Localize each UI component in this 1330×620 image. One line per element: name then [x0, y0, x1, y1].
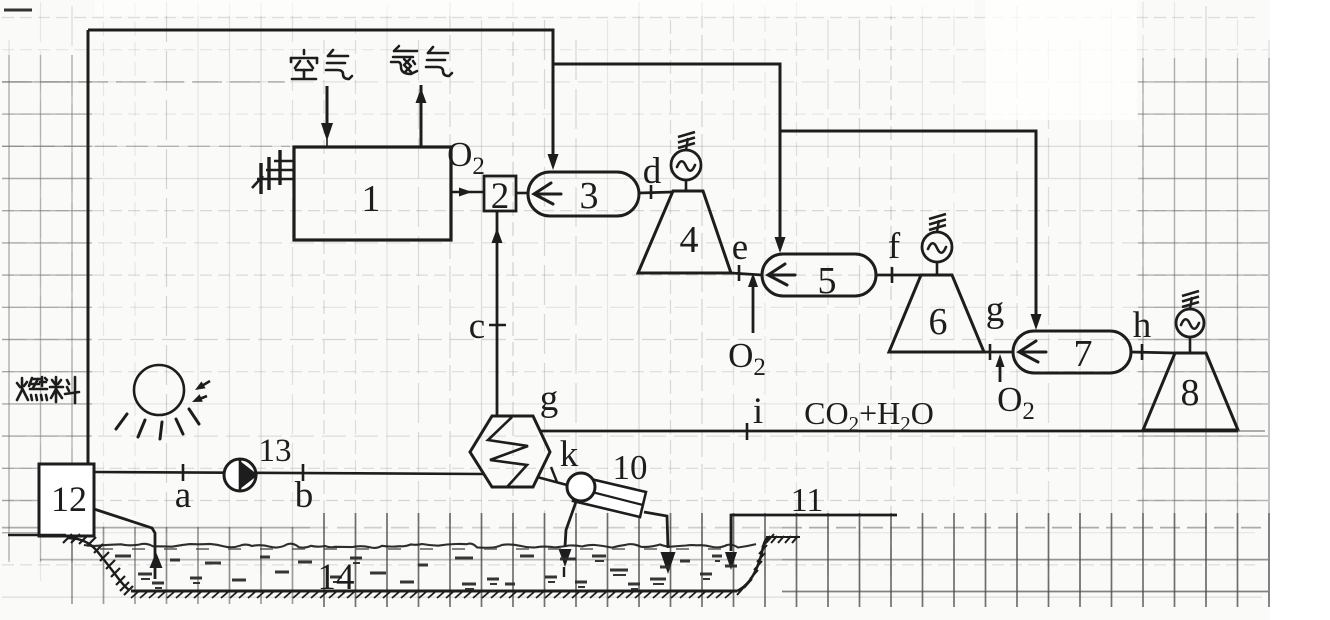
pond 14: right bank with hatching: [737, 537, 768, 591]
pond 14: ground line left of bank: [8, 534, 66, 537]
pump 10 discharge pipe into pond: [644, 512, 668, 548]
svg-text:b: b: [295, 475, 314, 516]
node k and pump 10 (cooling water pump): [537, 477, 567, 485]
svg-text:8: 8: [1181, 372, 1200, 414]
svg-text:g: g: [986, 289, 1005, 330]
svg-text:i: i: [753, 391, 763, 432]
svg-text:g: g: [540, 378, 559, 419]
turbine 8 (trapezoid): [1143, 353, 1238, 430]
svg-text:2: 2: [491, 176, 510, 217]
svg-text:a: a: [175, 475, 191, 516]
svg-text:5: 5: [818, 260, 837, 302]
burner comb symbol on left wall of unit 1: [252, 150, 294, 194]
pipe 11: condensate return into pond: [731, 515, 897, 551]
pump 10 suction pipe: [565, 499, 577, 547]
wire a-b: fuel/water line from tank 12 to heat exchanger: [94, 472, 484, 474]
combustor 7 (capsule): [1013, 331, 1131, 373]
svg-text:6: 6: [929, 301, 948, 343]
node g with O2 injection: [984, 351, 1013, 354]
svg-text:1: 1: [362, 178, 381, 220]
label air (kanji) with arrow into unit 1: [291, 50, 317, 79]
wire: recycle rail to combustor 7: [780, 131, 1036, 321]
svg-text:10: 10: [613, 448, 648, 487]
label nitrogen (kanji) with arrow out of unit 1: [391, 46, 417, 74]
generator on turbine 4: [685, 180, 688, 191]
svg-text:7: 7: [1074, 333, 1093, 375]
svg-text:h: h: [1133, 305, 1152, 346]
node c: [489, 324, 506, 327]
node f: [876, 274, 921, 277]
svg-text:e: e: [732, 227, 748, 268]
svg-text:12: 12: [51, 479, 87, 519]
svg-text:c: c: [469, 306, 485, 347]
svg-text:CO2+H2O: CO2+H2O: [804, 395, 934, 436]
unit 1: air separation unit box: [294, 147, 451, 240]
node d: [639, 192, 673, 193]
wire: fuel line left vertical drop: [87, 30, 90, 464]
svg-text:14: 14: [318, 557, 355, 598]
wire: exhaust line CO2+H2O from heat exchanger g to turbine 8: [540, 430, 1238, 433]
svg-text:13: 13: [259, 433, 292, 469]
node a: [182, 464, 185, 481]
pond 14: water surface wavy line: [84, 544, 756, 548]
svg-text:11: 11: [791, 482, 824, 519]
pond 14: water dashes: [115, 556, 737, 589]
node h: [1131, 352, 1175, 353]
node e with O2 injection: [731, 273, 762, 275]
pond 14: left bank with hatching: [68, 538, 129, 590]
sun symbol: [134, 365, 184, 415]
pond 14: bottom with hatching: [131, 590, 737, 593]
node O2 outlet of unit 1: [451, 191, 484, 194]
combustor 3 (capsule): [528, 172, 639, 216]
label fuel (kanji): [17, 377, 47, 400]
combustor 5 (capsule): [762, 254, 876, 296]
heat exchanger (hexagon) node g: [470, 416, 550, 487]
svg-text:d: d: [643, 151, 662, 192]
generator on turbine 6: [936, 262, 939, 275]
node b: [302, 464, 305, 481]
node i: [746, 423, 749, 440]
unit 2: small valve box: [484, 176, 516, 211]
svg-text:f: f: [888, 226, 901, 267]
suction pipe from pond into tank 12: [94, 509, 155, 579]
wire: recycle rail to combustor 5: [553, 64, 780, 244]
generator on turbine 8: [1189, 337, 1192, 353]
tank 12 (fuel feed box): [39, 464, 94, 536]
svg-text:4: 4: [680, 219, 699, 261]
wire: top recycle rail from air-separation area to combustor 3: [88, 30, 553, 162]
wire c: from heat exchanger up into unit 2: [496, 212, 499, 416]
svg-text:3: 3: [580, 175, 599, 217]
pump 13 (circle with solid triangle): [224, 459, 256, 491]
turbine 4 (trapezoid): [638, 191, 731, 273]
turbine 6 (trapezoid): [889, 275, 984, 352]
svg-text:k: k: [560, 434, 579, 475]
